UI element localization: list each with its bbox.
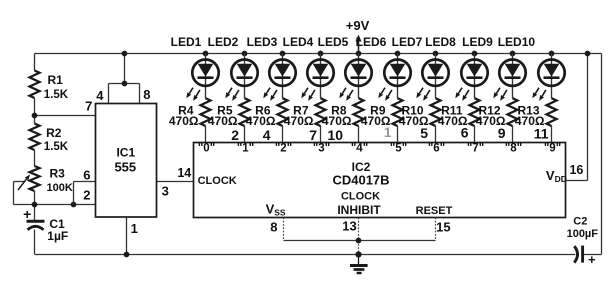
svg-text:+: + — [588, 252, 596, 267]
resistor R2 — [30, 124, 40, 151]
svg-text:1µF: 1µF — [47, 229, 68, 243]
label R7 — [293, 103, 309, 117]
pin 10 label (output "4") — [327, 127, 343, 143]
label LED5 — [318, 35, 349, 49]
resistor R3 (100K pot) — [30, 166, 40, 191]
svg-text:4: 4 — [263, 127, 271, 143]
svg-text:1: 1 — [384, 124, 392, 140]
pin 16 label — [569, 163, 583, 177]
pin 8 label — [143, 87, 150, 102]
node LED2 anode on rail — [242, 51, 248, 57]
wire 555 pin 7 from R1/R2 node — [35, 115, 96, 117]
svg-text:4: 4 — [96, 88, 104, 103]
wire LED7 column — [435, 54, 437, 99]
label LED7 — [392, 35, 423, 49]
wire pin8-pin13-pin15 link — [284, 240, 436, 242]
op-amp IC1 555 box — [96, 104, 157, 218]
wire LED8 column — [474, 54, 476, 99]
capacitor C1 plus plate — [27, 220, 45, 223]
LED8 light arrows — [455, 88, 469, 101]
wire LED5 column — [358, 54, 360, 99]
svg-text:6: 6 — [83, 167, 90, 182]
power +9V arrow — [356, 35, 362, 53]
svg-text:7: 7 — [85, 98, 92, 113]
wire left rail top segment — [34, 54, 36, 71]
svg-text:LED1: LED1 — [171, 35, 202, 49]
svg-text:RESET: RESET — [416, 205, 453, 217]
pin 7 label (output "3") — [309, 127, 317, 143]
label LED6 — [356, 35, 387, 49]
node pin13 ground rail junction — [355, 251, 361, 257]
label CD4017B — [332, 173, 389, 188]
wire C2 right plate to supply drop — [583, 254, 601, 256]
svg-text:"5": "5" — [390, 142, 407, 154]
wire C1 to ground rail — [34, 230, 36, 255]
svg-text:100µF: 100µF — [567, 228, 599, 240]
wire LED9 column — [512, 54, 514, 99]
node output "9" label — [544, 142, 561, 154]
LED3 light arrows — [263, 88, 277, 101]
node output "4" label — [351, 142, 368, 154]
wire IC2 pin 13 to ground — [358, 218, 360, 255]
pin 6 label — [83, 167, 90, 182]
pin 11 label (output "9") — [534, 126, 549, 142]
label R4 value 470ohm — [169, 114, 199, 128]
label CLOCK INHIBIT line1 — [341, 190, 380, 202]
svg-text:8: 8 — [143, 87, 150, 102]
label VSS — [266, 202, 286, 218]
node output "6" label — [428, 142, 445, 154]
wire ground bottom rail — [35, 254, 575, 256]
power +9V label — [346, 18, 370, 33]
label R8 value 470ohm — [322, 114, 352, 128]
label RESET — [416, 205, 453, 217]
capacitor C2 plus plate — [581, 246, 584, 263]
LED LED8 — [461, 59, 487, 85]
wire LED6 column — [397, 54, 399, 99]
resistor R1 — [30, 71, 40, 99]
svg-text:LED7: LED7 — [392, 35, 423, 49]
label R4 — [178, 103, 194, 117]
svg-text:8: 8 — [270, 219, 277, 234]
resistor R9 — [393, 98, 403, 126]
label 555 — [114, 160, 136, 175]
wire R3 wiper bracket — [14, 182, 25, 205]
wire IC2 pin 15 stub — [435, 218, 437, 241]
svg-text:LED5: LED5 — [318, 35, 349, 49]
LED LED6 — [384, 59, 410, 85]
LED10 light arrows — [532, 88, 546, 101]
pin 4 label (output "2") — [263, 127, 271, 143]
node output "3" label — [313, 142, 330, 154]
pin 8 label — [270, 219, 277, 234]
resistor R12 — [508, 98, 518, 126]
svg-text:1: 1 — [131, 221, 138, 236]
wire R13 to IC2 — [551, 126, 553, 142]
LED LED1 — [192, 59, 218, 85]
svg-text:16: 16 — [569, 163, 583, 177]
LED2 light arrows — [225, 88, 239, 101]
node output "2" label — [275, 142, 292, 154]
svg-text:"1": "1" — [237, 142, 254, 154]
svg-text:CLOCK: CLOCK — [198, 175, 237, 187]
LED1 light arrows — [186, 88, 200, 101]
svg-text:C2: C2 — [573, 216, 587, 228]
label R11 value 470ohm — [438, 114, 468, 128]
svg-text:LED8: LED8 — [425, 35, 456, 49]
label R12 — [478, 103, 500, 117]
LED LED2 — [231, 59, 257, 85]
LED LED5 — [345, 59, 371, 85]
label C1 plus — [23, 206, 31, 222]
node output "8" label — [505, 142, 522, 154]
label LED10 — [498, 35, 536, 49]
node pin2-pin6 branch junction — [71, 202, 77, 208]
pin 6 label (output "7") — [461, 125, 469, 141]
label LED2 — [208, 35, 239, 49]
wire R3 to C1 — [34, 191, 36, 221]
label VDD — [546, 168, 567, 184]
svg-text:1.5K: 1.5K — [44, 89, 69, 101]
wire right supply drop to C2 — [601, 54, 603, 255]
label R3 — [50, 166, 66, 180]
pin 2 label — [83, 188, 90, 203]
capacitor C2 curved plate — [574, 246, 577, 262]
svg-text:CD4017B: CD4017B — [332, 173, 389, 188]
label R12 value 470ohm — [476, 114, 506, 128]
wire 555 pin 3 to IC2 pin 14 — [157, 181, 194, 183]
label 100uF — [567, 228, 599, 240]
pin 9 label (output "8") — [498, 125, 506, 141]
svg-text:LED6: LED6 — [356, 35, 387, 49]
wire LED1 column — [205, 54, 207, 99]
pin 14 label — [177, 166, 191, 180]
wire 555 pin 2 from R3/C1 node — [14, 204, 96, 206]
node 555 pin1 on ground rail — [124, 252, 130, 258]
svg-text:7: 7 — [309, 127, 317, 143]
pin 1 label — [131, 221, 138, 236]
label R1 — [48, 73, 64, 87]
resistor R10 — [431, 98, 441, 126]
label R9 — [370, 103, 386, 117]
resistor R7 — [316, 98, 326, 126]
svg-text:IC1: IC1 — [116, 146, 135, 160]
label LED1 — [171, 35, 202, 49]
label R13 — [517, 103, 539, 117]
svg-text:11: 11 — [534, 126, 549, 142]
svg-text:"8": "8" — [505, 142, 522, 154]
label R8 — [331, 103, 347, 117]
svg-text:LED10: LED10 — [498, 35, 536, 49]
svg-text:3: 3 — [162, 183, 169, 198]
label CLOCK INHIBIT line2 — [337, 203, 381, 217]
wire R1 to R2 (node pin7) — [34, 98, 36, 124]
label LED9 — [462, 35, 493, 49]
wire +9V top supply rail — [35, 53, 602, 55]
wire R11 to IC2 — [474, 126, 476, 142]
node pins4-8 tee junction — [122, 81, 128, 87]
label LED3 — [247, 35, 278, 49]
node LED9 anode on rail — [510, 51, 516, 57]
label R11 — [441, 103, 463, 117]
svg-text:470Ω: 470Ω — [169, 114, 199, 128]
wire R9 to IC2 — [397, 126, 399, 142]
svg-text:R1: R1 — [48, 73, 64, 87]
pin 1 label (output "5") — [384, 124, 392, 140]
wire R7 to IC2 — [320, 126, 322, 142]
pin 13 label — [342, 219, 356, 234]
LED7 light arrows — [416, 88, 430, 101]
label LED8 — [425, 35, 456, 49]
node LED1 anode on rail — [203, 51, 209, 57]
node pin13 link junction — [356, 238, 362, 244]
svg-text:"4": "4" — [351, 142, 368, 154]
LED4 light arrows — [301, 88, 315, 101]
ground — [350, 255, 368, 274]
resistor R8 — [354, 98, 364, 126]
LED5 light arrows — [339, 88, 353, 101]
wire 555 supply tap from +9V rail — [124, 54, 126, 84]
svg-text:5: 5 — [420, 125, 428, 141]
LED9 light arrows — [493, 88, 507, 101]
resistor R6 — [278, 98, 288, 126]
svg-text:INHIBIT: INHIBIT — [337, 203, 381, 217]
counter IC2 CD4017B box — [194, 143, 566, 218]
wire R12 to IC2 — [512, 126, 514, 142]
pin 15 label — [436, 219, 450, 234]
svg-text:R2: R2 — [46, 126, 62, 140]
wire 555 pin 1 to ground — [126, 217, 128, 255]
label C2 — [573, 216, 587, 228]
LED LED7 — [422, 59, 448, 85]
label R1 value 1.5K — [44, 89, 69, 101]
wire R4 to IC2 — [205, 126, 207, 142]
LED6 light arrows — [378, 88, 392, 101]
node LED3 anode on rail — [280, 51, 286, 57]
svg-text:555: 555 — [114, 160, 136, 175]
pin 3 label — [162, 183, 169, 198]
wire R8 to IC2 — [358, 126, 360, 142]
node LED7 anode on rail — [433, 51, 439, 57]
svg-text:R3: R3 — [50, 166, 66, 180]
svg-text:"7": "7" — [467, 142, 484, 154]
LED LED4 — [307, 59, 333, 85]
svg-text:"0": "0" — [198, 142, 215, 154]
wire R2 to R3 — [34, 150, 36, 166]
svg-text:LED3: LED3 — [247, 35, 278, 49]
svg-text:1.5K: 1.5K — [44, 141, 69, 153]
pot R3 wiper arrow — [18, 175, 30, 191]
label R3 value 100K — [47, 182, 73, 194]
label R10 value 470ohm — [399, 114, 429, 128]
wire LED10 column — [551, 54, 553, 99]
label IC1 — [116, 146, 135, 160]
svg-text:LED9: LED9 — [462, 35, 493, 49]
svg-text:13: 13 — [342, 219, 356, 234]
svg-text:15: 15 — [436, 219, 450, 234]
LED LED10 — [538, 59, 564, 85]
label R7 value 470ohm — [284, 114, 314, 128]
svg-text:14: 14 — [177, 166, 191, 180]
wire R10 to IC2 — [435, 126, 437, 142]
wire IC2 pin16 to +9V rail — [566, 54, 588, 181]
wire R6 to IC2 — [282, 126, 284, 142]
svg-text:"6": "6" — [428, 142, 445, 154]
capacitor C1 curved plate — [28, 226, 44, 230]
node pin16 riser on rail — [585, 51, 591, 57]
resistor R13 — [547, 98, 557, 126]
label C1 — [49, 217, 65, 231]
svg-text:CLOCK: CLOCK — [341, 190, 380, 202]
svg-text:"9": "9" — [544, 142, 561, 154]
pin 2 label (output "1") — [231, 127, 239, 143]
wire LED4 column — [320, 54, 322, 99]
label C1 value 1uF — [47, 229, 68, 243]
pin 7 label — [85, 98, 92, 113]
pin 4 label — [96, 88, 104, 103]
node output "0" label — [198, 142, 215, 154]
label R13 value 470ohm — [515, 114, 545, 128]
svg-text:LED2: LED2 — [208, 35, 239, 49]
label LED4 — [283, 35, 314, 49]
label R5 value 470ohm — [208, 114, 238, 128]
svg-text:"2": "2" — [275, 142, 292, 154]
node LED4 anode on rail — [318, 51, 324, 57]
svg-text:+9V: +9V — [346, 18, 370, 33]
svg-text:6: 6 — [461, 125, 469, 141]
label R9 value 470ohm — [361, 114, 391, 128]
svg-text:100K: 100K — [47, 182, 73, 194]
label R6 value 470ohm — [246, 114, 276, 128]
label CLOCK pin14 inside — [198, 175, 237, 187]
node output "5" label — [390, 142, 407, 154]
node LED6 anode on rail — [395, 51, 401, 57]
node R3-C1 junction — [32, 202, 38, 208]
resistor R5 — [240, 98, 250, 126]
node LED8 anode on rail — [472, 51, 478, 57]
wire LED3 column — [282, 54, 284, 99]
wire 555 pins 4-8 tee — [109, 84, 140, 105]
svg-text:LED4: LED4 — [283, 35, 314, 49]
label R2 value 1.5K — [44, 141, 69, 153]
wire R5 to IC2 — [244, 126, 246, 142]
node supply tap on rail — [122, 51, 128, 57]
label R5 — [217, 103, 233, 117]
wire 555 pin 6 branch — [74, 182, 96, 205]
label R2 — [46, 126, 62, 140]
svg-text:470Ω: 470Ω — [246, 114, 276, 128]
pin 5 label (output "6") — [420, 125, 428, 141]
node output "1" label — [237, 142, 254, 154]
node LED10 anode on rail — [549, 51, 555, 57]
LED LED9 — [499, 59, 525, 85]
label IC2 — [352, 160, 371, 174]
svg-text:"3": "3" — [313, 142, 330, 154]
svg-text:+: + — [23, 206, 31, 222]
svg-text:10: 10 — [327, 127, 343, 143]
label R10 — [401, 103, 423, 117]
label C2 plus — [588, 252, 596, 267]
svg-text:2: 2 — [231, 127, 239, 143]
node LED5 anode on rail — [356, 51, 362, 57]
node R1-R2 junction — [32, 113, 38, 119]
wire LED2 column — [244, 54, 246, 99]
svg-text:2: 2 — [83, 188, 90, 203]
resistor R11 — [470, 98, 480, 126]
label R6 — [255, 103, 271, 117]
wire IC2 pin 8 stub — [283, 218, 285, 241]
svg-text:9: 9 — [498, 125, 506, 141]
node output "7" label — [467, 142, 484, 154]
LED LED3 — [269, 59, 295, 85]
resistor R4 — [201, 98, 211, 126]
